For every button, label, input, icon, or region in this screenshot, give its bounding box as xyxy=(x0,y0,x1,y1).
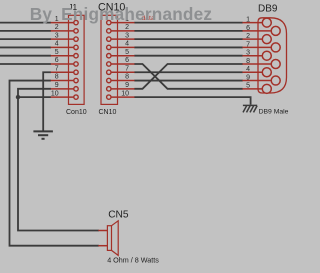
wire CN10 pin 4 to DB9 pin 7 xyxy=(134,46,242,48)
chassis ground below DB9 xyxy=(243,105,257,112)
svg-text:3: 3 xyxy=(246,50,250,57)
svg-text:CN10: CN10 xyxy=(99,109,117,116)
wire CN10 pin 2 to DB9 pin 6 xyxy=(134,30,242,32)
wire CN10 pin 7 to DB9 pin 4 xyxy=(134,71,242,73)
svg-text:Con10: Con10 xyxy=(66,109,87,116)
svg-text:10: 10 xyxy=(121,90,129,97)
DB9 pin numbers 1,6,2,7,3,8,4,9,5 xyxy=(246,17,250,90)
svg-text:By Enigmahernandez: By Enigmahernandez xyxy=(30,4,212,24)
wire J1 pin 4 xyxy=(0,46,51,48)
svg-text:6: 6 xyxy=(246,25,250,32)
wire J1 pin 2 xyxy=(0,30,51,32)
svg-text:4: 4 xyxy=(246,66,250,73)
CN10 pin numbers 1-10 xyxy=(121,16,129,98)
svg-text:5: 5 xyxy=(125,49,129,56)
svg-text:DB9: DB9 xyxy=(258,3,278,14)
svg-text:4 Ohm / 8 Watts: 4 Ohm / 8 Watts xyxy=(107,256,159,265)
svg-text:3: 3 xyxy=(125,32,129,39)
svg-text:2: 2 xyxy=(55,24,59,31)
svg-text:CN5: CN5 xyxy=(108,210,129,221)
svg-text:9: 9 xyxy=(125,82,129,89)
wire CN10 pin 5 to DB9 pin 3 xyxy=(134,55,242,57)
svg-text:9: 9 xyxy=(55,82,59,89)
wire J1 pin 8 to speaker minus xyxy=(10,81,99,246)
svg-text:7: 7 xyxy=(55,66,59,73)
wire J1 pin 7 to ground xyxy=(43,72,51,131)
wire CN10 pin 3 to DB9 pin 2 xyxy=(134,38,242,40)
wire CN10 pin 10 to chassis ground xyxy=(134,97,250,105)
svg-text:6: 6 xyxy=(55,57,59,64)
connector CN10 xyxy=(101,15,135,104)
wire J1 pin 10 xyxy=(18,96,51,98)
svg-text:9: 9 xyxy=(246,74,250,81)
junction dot node SPK xyxy=(16,95,20,99)
speaker CN5 xyxy=(98,221,118,256)
svg-text:4: 4 xyxy=(55,41,59,48)
wire J1 pin 9 to speaker plus xyxy=(18,89,99,231)
wire CN10 pin 9 to DB9 pin 5 crossover xyxy=(134,64,242,89)
svg-text:2: 2 xyxy=(246,33,250,40)
connector DB9 xyxy=(242,18,286,94)
wire CN10 pin 1 to DB9 pin 1 xyxy=(134,22,242,24)
svg-text:4: 4 xyxy=(125,41,129,48)
wire J1 pin 3 xyxy=(0,38,51,40)
svg-text:10: 10 xyxy=(51,90,59,97)
svg-text:8: 8 xyxy=(55,74,59,81)
svg-text:7: 7 xyxy=(246,41,250,48)
svg-text:8: 8 xyxy=(246,58,250,65)
svg-text:6: 6 xyxy=(125,57,129,64)
wire CN10 pin 6 to DB9 pin 9 crossover xyxy=(134,64,242,89)
ground GND below J1 xyxy=(33,131,53,138)
svg-text:5: 5 xyxy=(55,49,59,56)
wire J1 pin 1 xyxy=(0,22,51,24)
wire J1 pin 5 xyxy=(0,55,51,57)
svg-text:8: 8 xyxy=(125,74,129,81)
svg-text:7: 7 xyxy=(125,66,129,73)
connector J1 xyxy=(51,15,84,104)
svg-text:2: 2 xyxy=(125,24,129,31)
svg-text:5: 5 xyxy=(246,83,250,90)
wire J1 pin 6 xyxy=(0,63,51,65)
svg-text:3: 3 xyxy=(55,32,59,39)
svg-text:DB9 Male: DB9 Male xyxy=(259,108,289,115)
J1 pin numbers 1-10 xyxy=(51,16,59,98)
svg-text:1: 1 xyxy=(246,17,250,24)
wire CN10 pin 8 to DB9 pin 8 xyxy=(134,80,242,82)
